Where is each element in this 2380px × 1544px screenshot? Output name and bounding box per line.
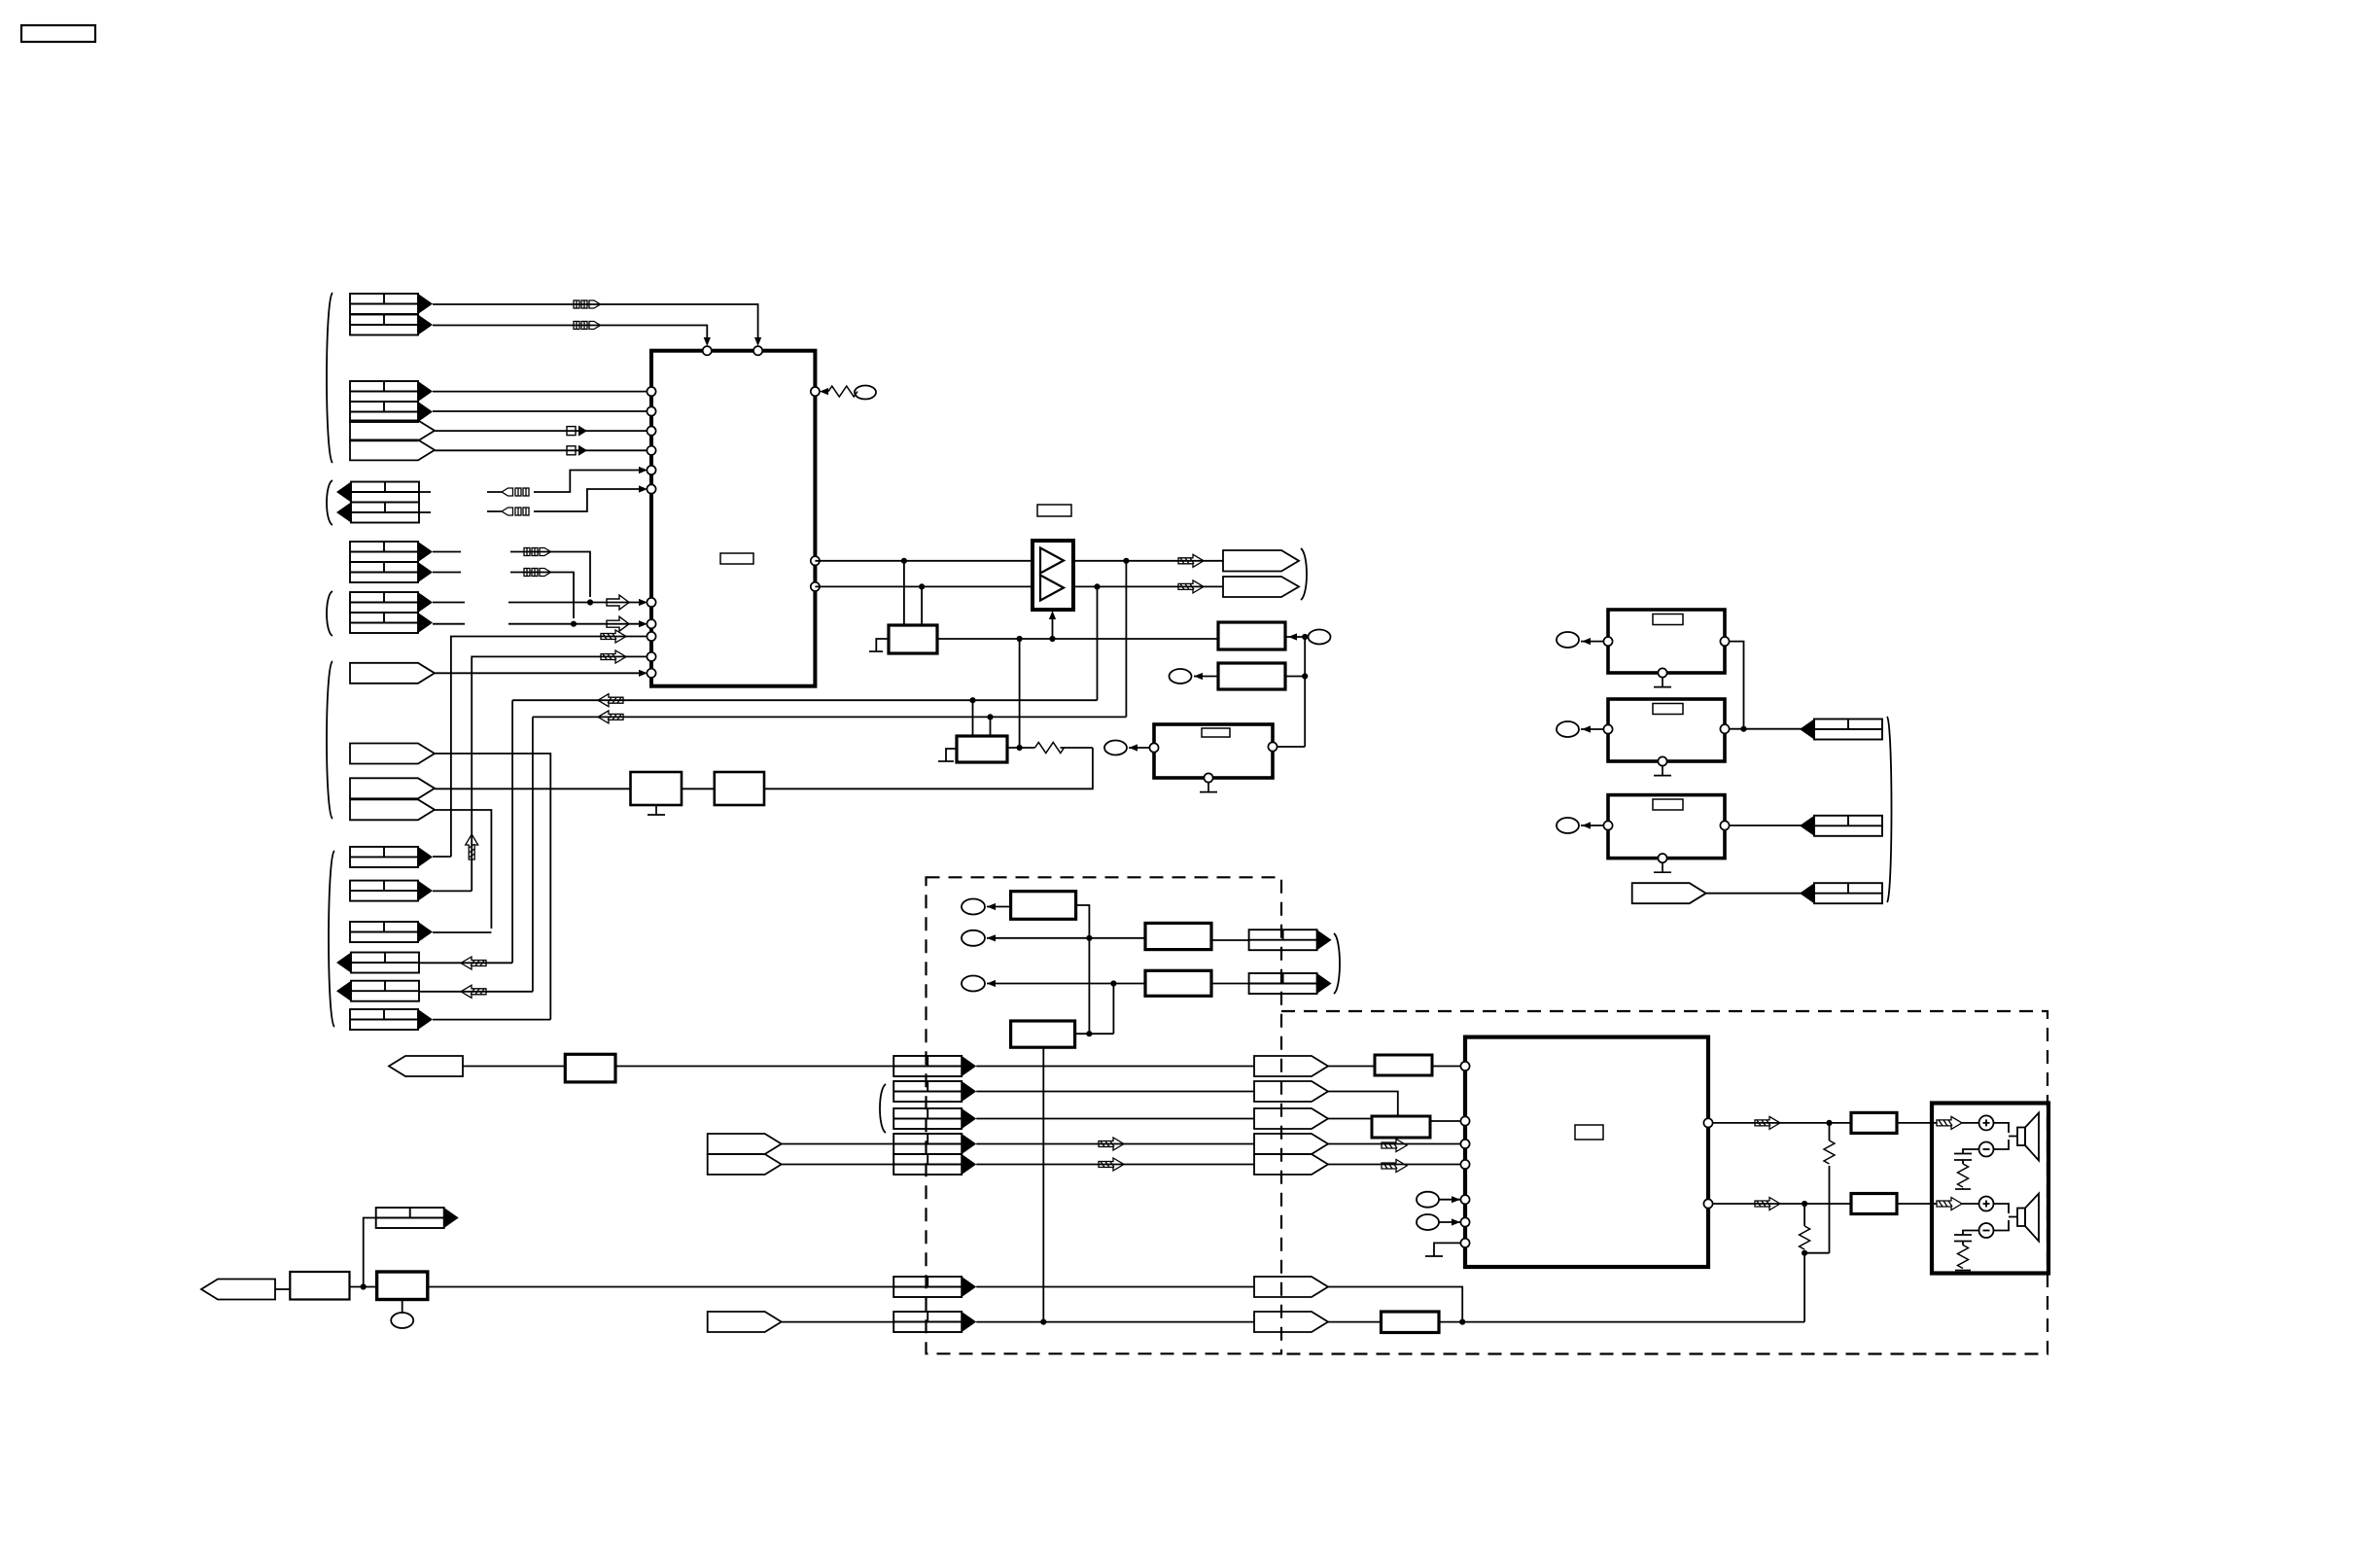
net label flag SD-A bbox=[574, 300, 601, 308]
dashed module box 2 bbox=[1281, 1011, 2047, 1354]
net label flag SD-B bbox=[574, 322, 601, 330]
net label LRCK bbox=[567, 445, 587, 456]
U2 gnd stub bbox=[1434, 1243, 1460, 1256]
wire CN8d bbox=[419, 962, 512, 964]
wire stub CN4b bbox=[433, 572, 461, 574]
wire row5 across bbox=[976, 1164, 1254, 1166]
wire bus vertical A to U1 pin 654 bbox=[451, 637, 647, 858]
wire X2 to TP6 bbox=[1581, 728, 1603, 730]
wire RV1 down bbox=[1829, 1166, 1831, 1253]
wire row4 across bbox=[976, 1143, 1254, 1145]
U2 pin3 bbox=[1460, 1140, 1469, 1148]
M2 ground stub bbox=[946, 749, 957, 761]
box J bbox=[290, 1272, 349, 1300]
junction M2 out bbox=[1017, 745, 1023, 751]
wire CN6 to U1 pin 692 bbox=[435, 672, 640, 674]
plus terminal R bbox=[1979, 1197, 1994, 1211]
test point oval TP12 bbox=[1417, 1214, 1439, 1230]
arrowhead into TP8 bbox=[987, 903, 996, 910]
arrowhead into TP5 bbox=[1582, 638, 1591, 645]
wire to U1 pin DATA1 bbox=[433, 391, 647, 393]
wire row3 across bbox=[976, 1118, 1254, 1120]
hatched net label outL bbox=[1755, 1116, 1780, 1129]
U2 pin6 bbox=[1460, 1217, 1469, 1226]
wire box B left to TP3 bbox=[1194, 676, 1218, 678]
wire TP12 to U2 bbox=[1439, 1221, 1460, 1223]
connector flag CN5 pin a bbox=[350, 592, 433, 613]
wire box F to flag B bbox=[1211, 983, 1249, 985]
wire U1 outL to buffer bbox=[815, 560, 1032, 562]
wire net MUTE1 bbox=[487, 471, 640, 493]
wire CN8f bbox=[433, 1019, 550, 1021]
speaker L wires bbox=[1994, 1123, 2018, 1149]
wire CN9 to flag bbox=[1706, 893, 1802, 895]
wire row into U1 pin 619 bbox=[508, 602, 640, 604]
U2 label box bbox=[1575, 1125, 1603, 1140]
hatched up arrow on bus B bbox=[466, 834, 478, 860]
wire to plus R bbox=[1962, 1203, 1979, 1205]
hatched net label CN8d bbox=[461, 957, 486, 969]
test point oval TP6 bbox=[1557, 721, 1579, 737]
box B filter bbox=[1218, 663, 1285, 689]
wire rowA to join bbox=[1328, 1287, 1462, 1322]
connector flag CN8a bbox=[350, 847, 433, 867]
wire row4 to U2 pin3 bbox=[1328, 1143, 1460, 1145]
test point oval TP9 bbox=[962, 930, 985, 946]
pentagon out rowA bbox=[1254, 1277, 1328, 1297]
cap to resistor L bbox=[1962, 1160, 1964, 1164]
buffer IC block bbox=[1032, 541, 1073, 610]
U1 top pin 1 bbox=[703, 346, 712, 355]
hatched net label row5 mid bbox=[1099, 1158, 1124, 1171]
wire CN8 lower down bbox=[435, 810, 491, 929]
U1 left pin 402 bbox=[647, 387, 655, 396]
title box bbox=[21, 25, 95, 42]
wire feedback out2 down bbox=[1097, 586, 1099, 700]
box G regulator bbox=[1011, 1021, 1075, 1047]
U2 right pin R bbox=[1703, 1199, 1712, 1208]
minus terminal L bbox=[1979, 1142, 1994, 1157]
wire R1a to U2 pin1 bbox=[1432, 1066, 1460, 1068]
wire P4 to flag r4 bbox=[782, 1143, 894, 1145]
junction outR bbox=[1802, 1201, 1807, 1207]
net label BCK bbox=[567, 426, 587, 437]
bracket group5 bbox=[327, 591, 332, 636]
capacitor CL bbox=[1954, 1154, 1972, 1161]
junction DET2 row bbox=[571, 621, 577, 627]
wire R11 to M2 node bbox=[764, 748, 1093, 789]
wire CN8c bbox=[433, 931, 491, 933]
arrowhead into U1 pin MUTE1 bbox=[639, 467, 647, 474]
capacitor CR bbox=[1954, 1235, 1972, 1242]
junction outL to M1 bbox=[901, 558, 907, 564]
wire M1 out to box A bbox=[937, 638, 1218, 640]
test point oval TP3 bbox=[1170, 669, 1192, 684]
test point oval TP2 bbox=[1309, 630, 1331, 645]
hatched net label row 737 bbox=[598, 711, 623, 723]
connector flag r4 bbox=[893, 1134, 976, 1154]
wire row3 to box R2 bbox=[1328, 1118, 1372, 1120]
connector flag CN1 pin a bbox=[350, 294, 433, 314]
U1 left pin 654 bbox=[647, 632, 655, 641]
pentagon out row3 bbox=[1254, 1108, 1328, 1129]
junction X1 X2 outputs bbox=[1740, 726, 1746, 732]
wire IC C left to TP4 bbox=[1129, 747, 1149, 749]
test point oval TP4 bbox=[1104, 741, 1127, 755]
resistor RV1 bbox=[1824, 1140, 1835, 1164]
hatched net label row 654 bbox=[601, 630, 626, 643]
U1 left pin 619 bbox=[647, 598, 655, 607]
cap wire L bbox=[1963, 1149, 1979, 1153]
wire to plus L bbox=[1962, 1122, 1979, 1124]
box D regulator bbox=[1011, 892, 1076, 920]
hatched net label outR bbox=[1755, 1198, 1780, 1211]
arrowhead into TP3 bbox=[1194, 673, 1203, 680]
wire P7 to flag rowB bbox=[782, 1321, 894, 1323]
wire buffer out 1 bbox=[1073, 560, 1223, 562]
arrowhead up into buffer bbox=[1049, 611, 1056, 619]
connector flag r3 bbox=[893, 1108, 976, 1129]
resistor box R3 bbox=[1851, 1112, 1897, 1133]
wire row into U1 pin 641 bbox=[508, 623, 640, 625]
wire RL gnd bbox=[1962, 1188, 1964, 1189]
input pentagon P1 bbox=[389, 1056, 463, 1076]
U1 part number label box bbox=[720, 553, 753, 564]
hatched net label out1 bbox=[1178, 554, 1204, 567]
test point oval TP10 bbox=[962, 976, 985, 992]
wire feedback down left bbox=[1803, 1253, 1805, 1322]
wire rowB across bbox=[976, 1321, 1254, 1323]
ground bar L bbox=[1955, 1188, 1971, 1190]
X1 ground bbox=[1654, 678, 1671, 687]
buffer triangle 1 bbox=[1040, 548, 1064, 574]
wire up to flag CN10 bbox=[364, 1218, 376, 1287]
connector flag CN2 pin a bbox=[350, 381, 433, 402]
wire box H to flag r1 bbox=[615, 1066, 893, 1068]
U2 pin5 bbox=[1460, 1195, 1469, 1204]
X1 left pin bbox=[1603, 637, 1612, 646]
hatched label spk L bbox=[1937, 1116, 1962, 1129]
buffer enable wire bbox=[1052, 615, 1054, 639]
X3 right pin bbox=[1720, 821, 1729, 829]
U1 left pin 422 bbox=[647, 406, 655, 415]
arrowhead into TP7 bbox=[1582, 822, 1591, 828]
wire net MUTE2 bbox=[487, 489, 640, 511]
input pentagon P5 bbox=[708, 1154, 782, 1175]
resistor box R1a bbox=[1375, 1055, 1432, 1075]
output pentagon flag out1 bbox=[1223, 550, 1299, 572]
connector pentagon CN2 pin d bbox=[350, 439, 435, 460]
wire X3 out to flag bbox=[1730, 825, 1802, 826]
connector flag CN3 pin b (output) bbox=[336, 503, 419, 523]
connector flag CN1 pin b bbox=[350, 315, 433, 335]
wire CN8b bbox=[433, 890, 472, 892]
ground bar U2 bbox=[1425, 1255, 1443, 1257]
wire M1 top pin 2 bbox=[921, 586, 923, 625]
junction M2 pin1 bbox=[969, 697, 975, 703]
output flag FB bbox=[1249, 973, 1332, 994]
test point oval TP11 bbox=[1417, 1192, 1439, 1208]
wire CN8 upper to R10 R11 chain bbox=[435, 788, 631, 790]
U1 left pin 503 bbox=[647, 484, 655, 493]
connector pentagon CN8 upper bbox=[350, 778, 435, 798]
wire bus vertical C bbox=[511, 700, 513, 963]
wire buffer out 2 bbox=[1073, 585, 1223, 587]
wire box K bottom bbox=[402, 1300, 403, 1314]
net label flag MUTE2 bbox=[502, 508, 529, 515]
junction M1 out buffer enable bbox=[1049, 636, 1055, 642]
resistor divider top bbox=[1829, 1123, 1831, 1140]
X2 left pin bbox=[1603, 724, 1612, 733]
IC U2 power amp bbox=[1465, 1037, 1708, 1267]
U2 pin4 bbox=[1460, 1160, 1469, 1169]
ground bar M2 bbox=[938, 760, 954, 762]
wire node join bbox=[1804, 1252, 1829, 1254]
wire R5 to feedback node bbox=[1439, 1321, 1804, 1323]
wire bus vertical B to U1 pin 675 bbox=[472, 656, 647, 891]
U1 left pin 443 bbox=[647, 427, 655, 436]
wire M1 node down to M2 node bbox=[1019, 639, 1021, 748]
arrowhead into U1 top pin 2 bbox=[754, 337, 761, 346]
junction DET1 row bbox=[587, 599, 593, 605]
wire R3 to speaker box bbox=[1897, 1122, 1937, 1124]
hatched net label row4 bbox=[1382, 1140, 1407, 1152]
buffer label box bbox=[1037, 505, 1071, 516]
cap to resistor R bbox=[1962, 1242, 1964, 1246]
wire box A right bbox=[1285, 636, 1305, 638]
box A filter bbox=[1218, 622, 1285, 649]
connector pentagon CN7 bbox=[350, 744, 435, 764]
U1 right pin 402 (osc) bbox=[811, 387, 820, 396]
net label flag DET1 bbox=[524, 548, 551, 556]
wire node down bbox=[1304, 637, 1306, 747]
wire P5 to flag r5 bbox=[782, 1164, 894, 1166]
IC C block bbox=[1154, 724, 1273, 778]
wire TP8 to box D bbox=[987, 906, 1011, 908]
wire stub CN4a bbox=[433, 551, 461, 553]
bracket group1 group2 bbox=[327, 293, 332, 463]
dashed module box 1 bbox=[927, 877, 1282, 1353]
output flag FA bbox=[1249, 930, 1332, 950]
IC C ground bbox=[1200, 783, 1217, 792]
junction box A node bbox=[1302, 634, 1308, 640]
plus terminal L bbox=[1979, 1115, 1994, 1130]
bracket group4 (large) bbox=[327, 661, 332, 819]
input pentagon P7 bbox=[708, 1312, 782, 1332]
ground bar M1 bbox=[869, 650, 883, 652]
wire TP9 to box E bbox=[987, 937, 1145, 939]
input pentagon P6 bbox=[201, 1280, 275, 1300]
wire U2 outL bbox=[1713, 1122, 1851, 1124]
wire CN7 down to CN8f bbox=[435, 754, 550, 1020]
wire row2 L to box R2 bbox=[1328, 1092, 1398, 1117]
wire net DET1 bbox=[510, 552, 590, 598]
wire X2 out to flag bbox=[1730, 728, 1802, 730]
wire U2 outR bbox=[1713, 1203, 1851, 1205]
U2 pin2 bbox=[1460, 1116, 1469, 1125]
box K bbox=[377, 1272, 428, 1300]
IC C bottom pin bbox=[1204, 773, 1212, 782]
arrowhead into U2 pin6 bbox=[1452, 1218, 1460, 1225]
test point oval TP8 bbox=[962, 899, 985, 915]
net label flag MUTE1 bbox=[502, 488, 529, 496]
X3 ground bbox=[1654, 862, 1671, 872]
arrowhead into U1 pin 641 bbox=[639, 620, 647, 627]
pentagon CN9 bbox=[1632, 883, 1706, 903]
IC C right pin bbox=[1268, 742, 1277, 751]
junction M2 pin2 bbox=[987, 714, 993, 719]
wire net DET2 bbox=[510, 573, 574, 619]
wire box G right node bbox=[1075, 1033, 1114, 1035]
bracket group3 bbox=[327, 480, 332, 525]
wire node up to F wire bbox=[1112, 984, 1114, 1035]
junction M1 out to M2 bbox=[1017, 636, 1023, 642]
wire CN8e bbox=[419, 991, 533, 993]
hatched net label out2 bbox=[1178, 580, 1204, 593]
output flag FL2 bbox=[1800, 816, 1882, 836]
wire P1 to box H bbox=[463, 1066, 565, 1068]
wire R4 to speaker box bbox=[1897, 1203, 1937, 1205]
wire row 737 bbox=[533, 716, 1127, 718]
test point oval TP1 bbox=[855, 386, 876, 400]
M1 ground stub bbox=[876, 639, 889, 651]
wire U1 outR to buffer bbox=[815, 585, 1032, 587]
wire stub CN5b bbox=[433, 623, 465, 625]
arrowhead into U1 osc pin bbox=[820, 388, 828, 395]
X2 bottom pin bbox=[1658, 756, 1666, 765]
U2 pin7 bbox=[1460, 1239, 1469, 1247]
wire RV2 top bbox=[1803, 1204, 1805, 1226]
arrowhead into TP6 bbox=[1582, 725, 1591, 732]
wire net SD-A bbox=[433, 304, 758, 338]
connector flag CN8b bbox=[350, 881, 433, 901]
amp block X3 bbox=[1608, 795, 1725, 859]
resistor R12 bbox=[1035, 743, 1065, 754]
pentagon out row1 bbox=[1254, 1056, 1328, 1076]
cap wire R bbox=[1963, 1231, 1979, 1235]
hatched label spk R bbox=[1937, 1198, 1962, 1211]
connector flag CN10 bbox=[376, 1208, 459, 1228]
connector flag CN8f bbox=[350, 1009, 433, 1030]
wire box G bottom down bbox=[1042, 1047, 1044, 1321]
hatched net label row4 mid bbox=[1099, 1138, 1124, 1150]
wire feedback out1 down bbox=[1125, 561, 1127, 718]
pentagon out rowB bbox=[1254, 1312, 1328, 1332]
arrowhead into TP10 bbox=[987, 980, 996, 987]
connector flag CN2 pin b bbox=[350, 402, 433, 422]
U2 pin1 bbox=[1460, 1062, 1469, 1070]
U1 right pin out L bbox=[811, 556, 820, 565]
U1 left pin 463 bbox=[647, 446, 655, 455]
arrowhead into U1 top pin 1 bbox=[704, 337, 711, 346]
hatched net label row 675 bbox=[601, 650, 626, 663]
box E filter bbox=[1145, 923, 1211, 949]
wire row5 to U2 pin4 bbox=[1328, 1164, 1460, 1166]
input pentagon P4 bbox=[708, 1134, 782, 1154]
wire rowB to box R5 bbox=[1328, 1321, 1382, 1323]
hatched net label CN8e bbox=[461, 985, 486, 998]
wire P6 to box J bbox=[275, 1288, 290, 1290]
speaker L symbol bbox=[2017, 1113, 2039, 1161]
U1 top pin 2 bbox=[753, 346, 762, 355]
X3 bottom pin bbox=[1658, 854, 1666, 862]
IC U1 main block bbox=[651, 351, 815, 686]
wire IC C right to node bbox=[1277, 746, 1306, 748]
U1 left pin 641 bbox=[647, 619, 655, 628]
connector pentagon CN2 pin c bbox=[350, 420, 435, 440]
wire box E to flag A bbox=[1211, 939, 1249, 941]
arrowhead into TP4 bbox=[1129, 744, 1137, 751]
resistor RL bbox=[1958, 1164, 1969, 1187]
wire osc to TP bbox=[854, 391, 855, 393]
resistor box R2 bbox=[1372, 1116, 1430, 1138]
junction rowB box G bbox=[1040, 1319, 1046, 1325]
wire M2 pin2 up bbox=[990, 717, 992, 736]
U2 right pin L bbox=[1703, 1118, 1712, 1127]
speaker R wires bbox=[1994, 1204, 2018, 1231]
hatched net label row 720 bbox=[598, 694, 623, 707]
junction buffer out1 feedback bbox=[1123, 558, 1129, 564]
X1 bottom pin bbox=[1658, 668, 1666, 677]
bracket rows 2 3 bbox=[880, 1084, 886, 1133]
box F filter bbox=[1145, 970, 1211, 996]
arrowhead into U1 pin 692 bbox=[639, 670, 647, 677]
wire row2 across bbox=[976, 1091, 1254, 1093]
output flag FL3 bbox=[1800, 883, 1882, 903]
U1 left pin 692 bbox=[647, 669, 655, 678]
connector flag r1 bbox=[893, 1056, 976, 1076]
hatched net label row5 bbox=[1382, 1160, 1407, 1173]
wire stub CN3a bbox=[419, 491, 431, 493]
wire stub CN3b bbox=[419, 511, 431, 513]
bracket flags A B bbox=[1334, 933, 1340, 994]
wire X1 out down bbox=[1730, 642, 1744, 729]
connector flag rowB bbox=[893, 1312, 976, 1332]
arrowhead into TP9 bbox=[987, 934, 996, 941]
IC M2 block bbox=[957, 736, 1007, 762]
U1 right pin out R bbox=[811, 582, 820, 591]
bracket outputs bbox=[1301, 548, 1307, 600]
X2 label box bbox=[1653, 704, 1683, 715]
bracket right outputs bbox=[1887, 717, 1892, 902]
test point oval TP13 bbox=[391, 1313, 413, 1328]
X1 right pin bbox=[1720, 637, 1729, 646]
output pentagon flag out2 bbox=[1223, 577, 1299, 597]
IC C label box bbox=[1202, 728, 1230, 737]
hollow arrow row 641 bbox=[607, 616, 629, 631]
minus terminal R bbox=[1979, 1223, 1994, 1238]
junction feedback node bbox=[1802, 1250, 1807, 1256]
wire R12 to corner bbox=[1061, 747, 1093, 749]
connector flag CN3 pin a (output) bbox=[336, 482, 419, 503]
wire box D out down bbox=[1076, 905, 1090, 1034]
X2 right pin bbox=[1720, 724, 1729, 733]
resistor RR bbox=[1958, 1246, 1969, 1269]
wire to U1 pin CLK1 bbox=[435, 430, 647, 432]
X3 label box bbox=[1653, 799, 1683, 810]
wire X3 to TP7 bbox=[1581, 825, 1603, 826]
wire box K to flag rowA bbox=[428, 1286, 893, 1288]
wire R10 to R11 bbox=[682, 788, 715, 790]
U1 left pin 483 bbox=[647, 466, 655, 474]
connector flag CN8d (output) bbox=[336, 953, 419, 973]
X3 left pin bbox=[1603, 821, 1612, 829]
resistor box R5 bbox=[1382, 1312, 1440, 1333]
bracket group6 bbox=[329, 851, 334, 1027]
ground below R10 bbox=[647, 805, 665, 815]
junction G node bbox=[1086, 1031, 1092, 1036]
junction rowA rowB bbox=[1459, 1319, 1465, 1325]
